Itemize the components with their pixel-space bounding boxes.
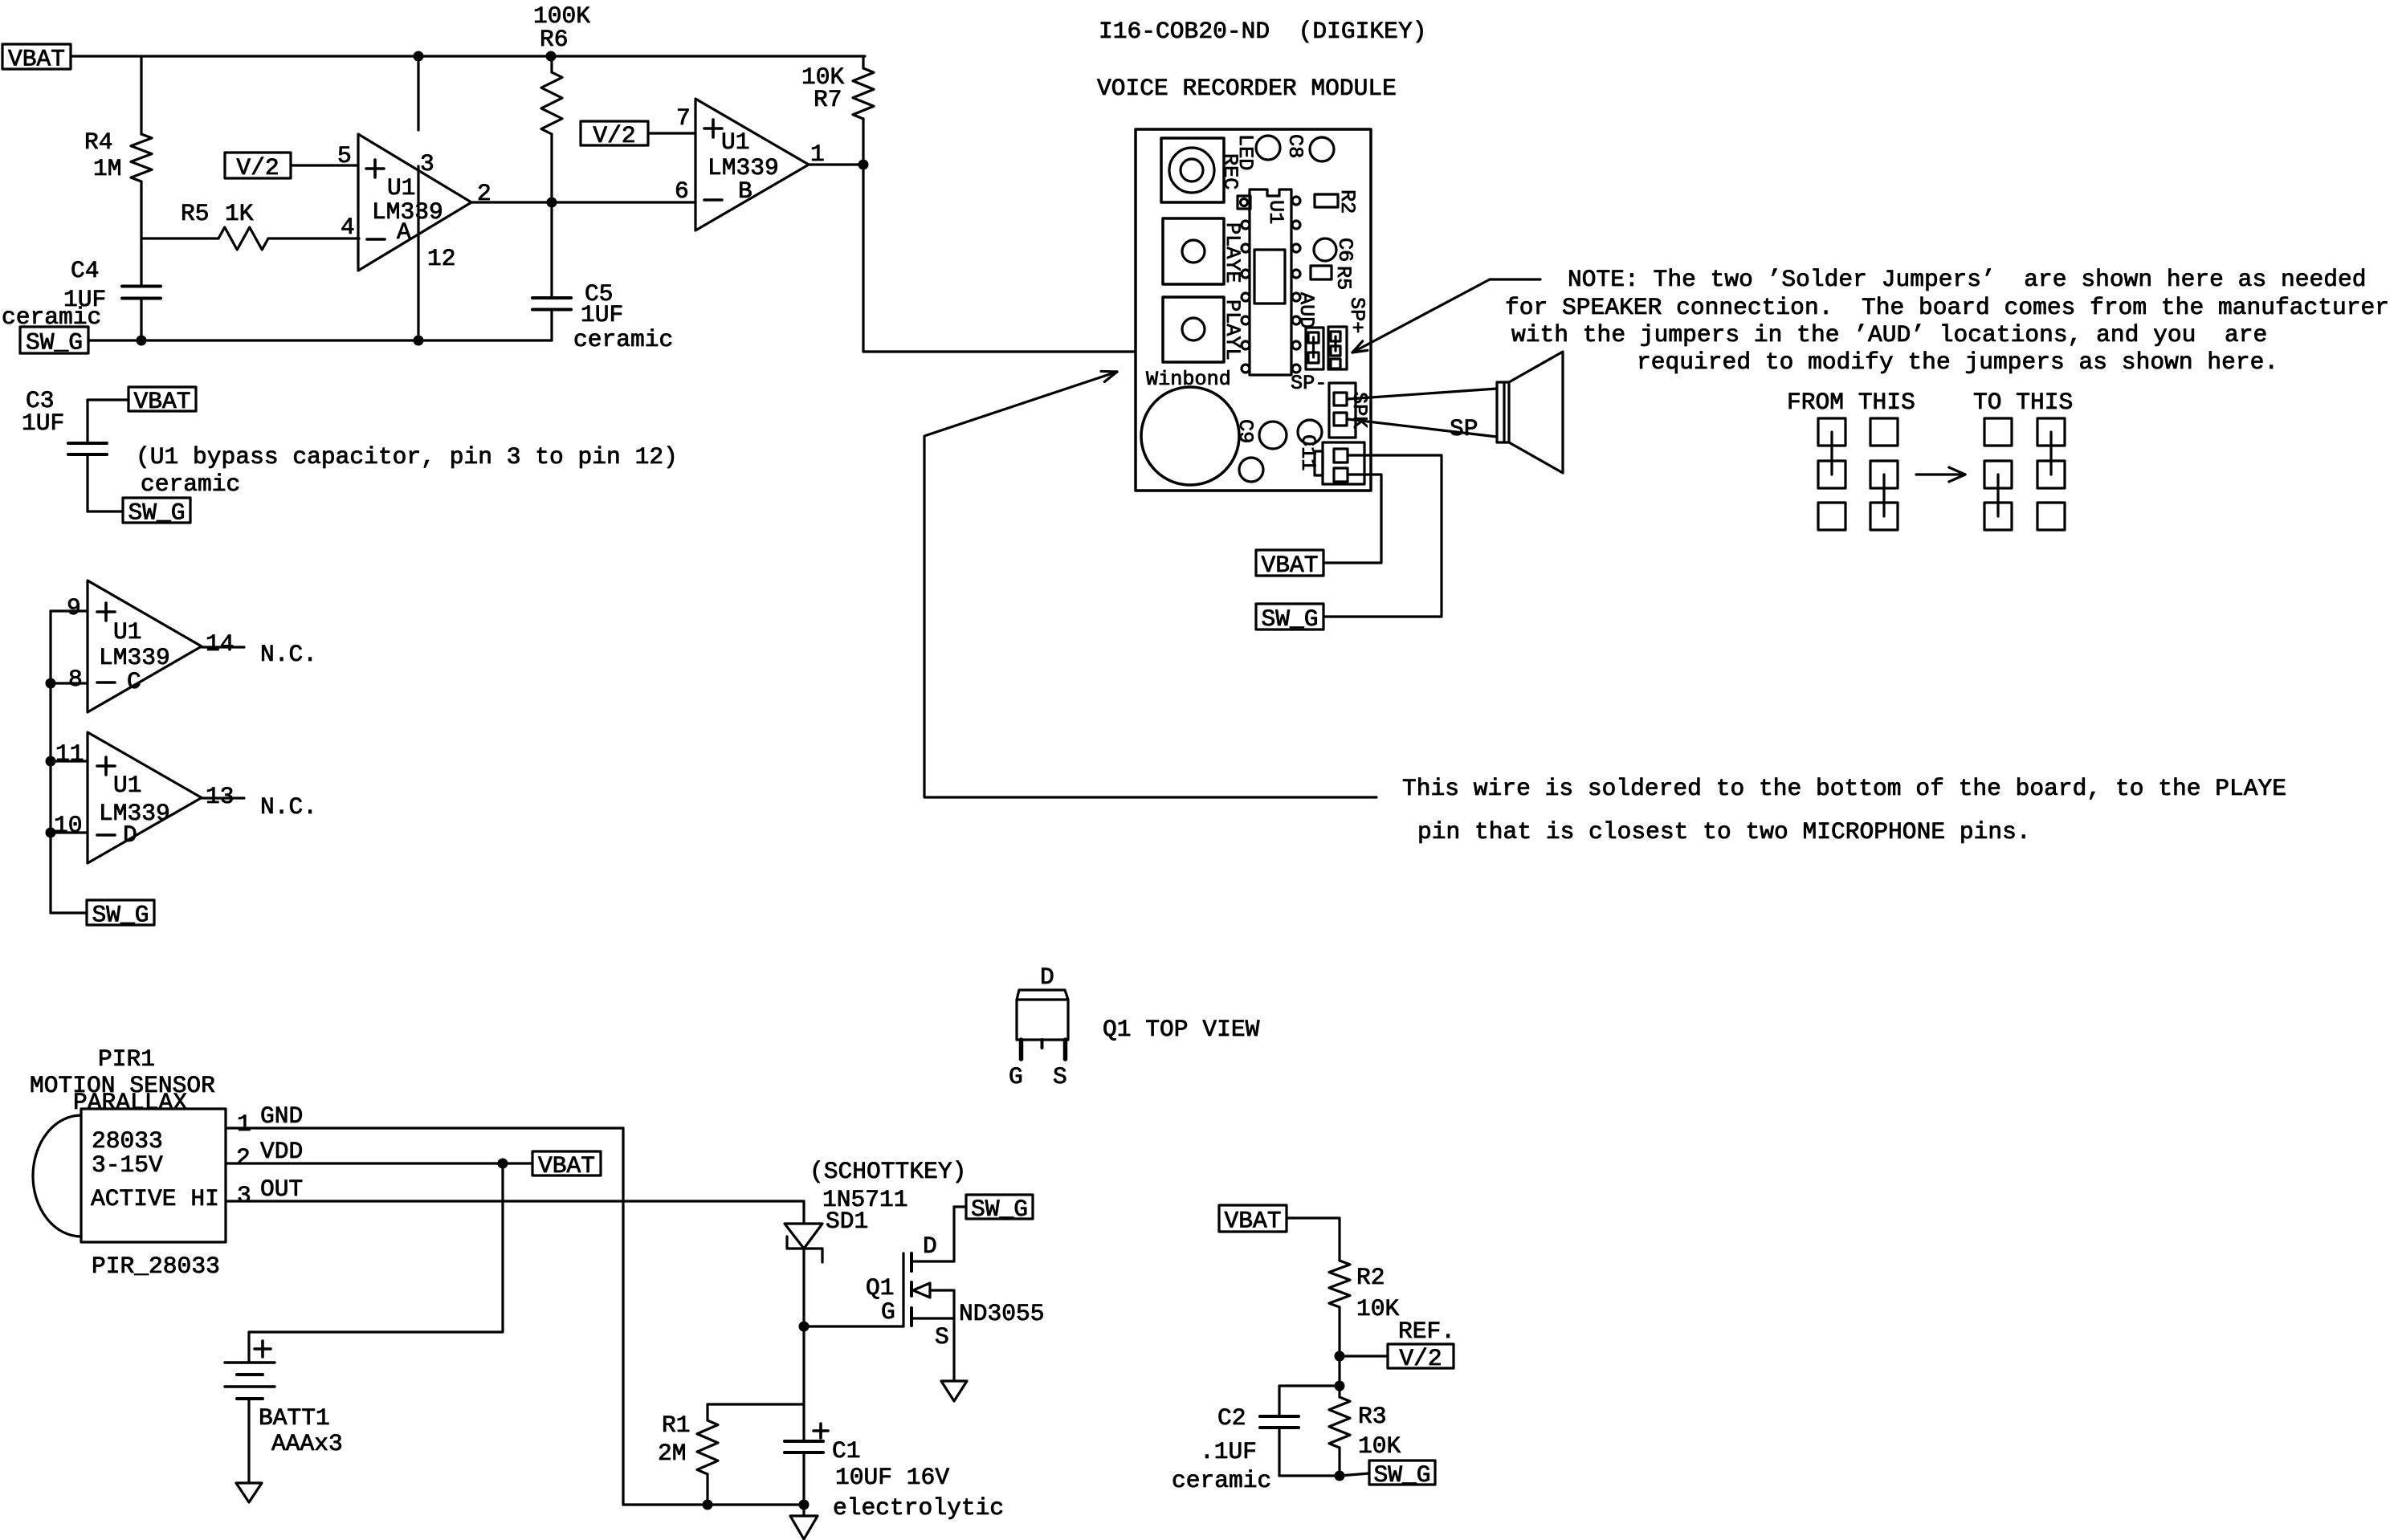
svg-text:AUD: AUD xyxy=(1295,292,1318,328)
svg-text:(U1 bypass capacitor, pin 3 to: (U1 bypass capacitor, pin 3 to pin 12) xyxy=(136,443,678,471)
svg-text:for SPEAKER connection. The b: for SPEAKER connection. The board comes … xyxy=(1505,294,2389,321)
svg-text:D: D xyxy=(123,821,137,849)
svg-text:V/2: V/2 xyxy=(1399,1345,1442,1372)
svg-text:U1: U1 xyxy=(113,618,142,646)
svg-text:R5: R5 xyxy=(1332,266,1355,290)
svg-text:SD1: SD1 xyxy=(826,1208,868,1235)
svg-text:AAAx3: AAAx3 xyxy=(271,1430,343,1457)
svg-text:SP: SP xyxy=(1450,415,1478,442)
svg-text:10UF 16V: 10UF 16V xyxy=(835,1464,949,1491)
svg-text:FROM THIS: FROM THIS xyxy=(1787,389,1915,416)
svg-text:3: 3 xyxy=(237,1182,251,1209)
svg-text:C6: C6 xyxy=(1333,238,1356,262)
svg-text:VBAT: VBAT xyxy=(1261,552,1318,579)
svg-text:C8: C8 xyxy=(1283,134,1307,158)
svg-text:VOICE RECORDER MODULE: VOICE RECORDER MODULE xyxy=(1097,75,1397,102)
svg-text:electrolytic: electrolytic xyxy=(833,1494,1004,1522)
svg-text:VBAT: VBAT xyxy=(538,1152,595,1179)
svg-text:11: 11 xyxy=(55,740,84,768)
svg-text:Q1: Q1 xyxy=(866,1274,895,1302)
svg-text:C2: C2 xyxy=(1217,1404,1246,1432)
svg-text:N.C.: N.C. xyxy=(260,793,317,821)
svg-text:BATT1: BATT1 xyxy=(259,1404,330,1432)
svg-text:This wire is soldered to the b: This wire is soldered to the bottom of t… xyxy=(1402,775,2286,802)
svg-text:SW_G: SW_G xyxy=(26,329,83,356)
svg-text:C4: C4 xyxy=(71,257,100,284)
svg-text:U1: U1 xyxy=(1264,200,1287,224)
svg-text:PIR1: PIR1 xyxy=(98,1045,155,1073)
svg-text:R4: R4 xyxy=(84,128,113,156)
svg-text:8: 8 xyxy=(68,666,83,693)
svg-text:2: 2 xyxy=(236,1144,251,1171)
svg-text:V/2: V/2 xyxy=(593,122,635,149)
svg-text:SW_G: SW_G xyxy=(1373,1461,1430,1489)
svg-text:Winbond: Winbond xyxy=(1146,368,1231,391)
svg-text:LM339: LM339 xyxy=(99,644,170,671)
svg-text:V/2: V/2 xyxy=(236,154,279,181)
svg-text:Q1 TOP VIEW: Q1 TOP VIEW xyxy=(1103,1016,1260,1043)
svg-text:1M: 1M xyxy=(93,155,122,182)
svg-text:U1: U1 xyxy=(387,174,416,202)
svg-text:VBAT: VBAT xyxy=(1224,1208,1281,1235)
svg-text:PIR_28033: PIR_28033 xyxy=(92,1253,220,1280)
svg-text:SP+: SP+ xyxy=(1345,297,1368,333)
svg-text:S: S xyxy=(935,1323,949,1351)
svg-text:2M: 2M xyxy=(658,1440,687,1467)
svg-text:G: G xyxy=(1009,1063,1023,1090)
svg-text:ND3055: ND3055 xyxy=(959,1300,1045,1327)
svg-text:1UF: 1UF xyxy=(581,301,623,328)
svg-text:1K: 1K xyxy=(225,200,254,227)
svg-text:28033: 28033 xyxy=(92,1127,163,1155)
svg-text:GND: GND xyxy=(260,1102,303,1130)
svg-text:pin that is closest to two MIC: pin that is closest to two MICROPHONE pi… xyxy=(1417,818,2031,845)
svg-text:ceramic: ceramic xyxy=(141,471,240,498)
svg-text:VBAT: VBAT xyxy=(133,388,190,415)
svg-text:.1UF: .1UF xyxy=(1200,1438,1257,1465)
svg-text:with the jumpers in the ’AUD’: with the jumpers in the ’AUD’ locations,… xyxy=(1511,321,2267,348)
svg-text:R1: R1 xyxy=(662,1412,691,1439)
svg-text:REF.: REF. xyxy=(1398,1318,1455,1345)
svg-text:SW_G: SW_G xyxy=(128,499,185,527)
svg-text:ACTIVE HI: ACTIVE HI xyxy=(91,1185,219,1212)
svg-text:6: 6 xyxy=(675,177,689,205)
svg-text:C: C xyxy=(127,668,141,695)
svg-text:N.C.: N.C. xyxy=(260,641,317,668)
svg-text:12: 12 xyxy=(427,245,456,272)
svg-text:SW_G: SW_G xyxy=(92,902,149,929)
svg-text:PLAYL: PLAYL xyxy=(1221,299,1244,361)
svg-text:10K: 10K xyxy=(1356,1295,1400,1322)
svg-text:PARALLAX: PARALLAX xyxy=(73,1089,187,1116)
svg-text:VBAT: VBAT xyxy=(8,46,65,73)
svg-text:10K: 10K xyxy=(1358,1432,1401,1460)
svg-text:SP-: SP- xyxy=(1291,372,1327,395)
svg-text:B: B xyxy=(738,177,752,205)
svg-text:R2: R2 xyxy=(1356,1264,1385,1291)
svg-text:G: G xyxy=(881,1298,895,1326)
svg-text:R7: R7 xyxy=(814,86,842,113)
svg-text:3-15V: 3-15V xyxy=(92,1151,163,1179)
svg-text:OUT: OUT xyxy=(260,1175,303,1203)
svg-text:VDD: VDD xyxy=(260,1138,303,1165)
svg-text:SW_G: SW_G xyxy=(971,1196,1028,1223)
svg-text:14: 14 xyxy=(206,630,234,658)
svg-text:U1: U1 xyxy=(113,772,142,799)
svg-text:ceramic: ceramic xyxy=(573,326,673,353)
svg-text:A: A xyxy=(397,218,411,246)
svg-text:R6: R6 xyxy=(540,26,569,53)
svg-text:4: 4 xyxy=(341,214,355,241)
svg-text:13: 13 xyxy=(206,783,234,810)
svg-text:(SCHOTTKEY): (SCHOTTKEY) xyxy=(810,1158,966,1185)
svg-text:I16-COB20-ND (DIGIKEY): I16-COB20-ND (DIGIKEY) xyxy=(1099,18,1426,45)
svg-text:D: D xyxy=(923,1232,937,1260)
svg-text:REC: REC xyxy=(1218,153,1242,189)
svg-text:R3: R3 xyxy=(1358,1403,1387,1430)
svg-text:1UF: 1UF xyxy=(22,409,64,437)
svg-text:U1: U1 xyxy=(721,128,750,156)
svg-text:7: 7 xyxy=(676,104,691,132)
svg-text:C1: C1 xyxy=(832,1437,861,1465)
svg-text:1: 1 xyxy=(237,1110,251,1138)
svg-text:10: 10 xyxy=(54,812,83,839)
svg-text:C9: C9 xyxy=(1234,419,1257,443)
svg-text:9: 9 xyxy=(67,594,81,621)
svg-text:SW_G: SW_G xyxy=(1261,605,1318,633)
svg-text:TO THIS: TO THIS xyxy=(1973,389,2073,416)
svg-text:5: 5 xyxy=(337,142,352,169)
svg-text:S: S xyxy=(1053,1063,1067,1090)
svg-text:R2: R2 xyxy=(1336,189,1359,214)
svg-text:ceramic: ceramic xyxy=(1172,1467,1271,1494)
svg-text:NOTE: The two ’Solder Jumpers’: NOTE: The two ’Solder Jumpers’ are shown… xyxy=(1568,266,2367,293)
svg-text:D: D xyxy=(1040,964,1054,991)
svg-text:required to modify the jumpers: required to modify the jumpers as shown … xyxy=(1637,348,2278,376)
svg-text:R5: R5 xyxy=(181,200,210,227)
